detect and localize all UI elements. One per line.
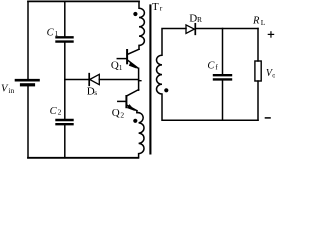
- wire Cf branch upper: [222, 29, 224, 75]
- transformer primary lower winding: [137, 113, 144, 158]
- capacitor Cf: [214, 75, 231, 79]
- wire capacitor branch upper: [64, 2, 66, 36]
- label minus: [265, 117, 271, 119]
- polarity dot secondary: [164, 88, 168, 92]
- label plus: [268, 31, 275, 38]
- svg-text:C: C: [207, 60, 215, 71]
- svg-text:Q: Q: [111, 59, 119, 71]
- wire left rail lower: [27, 86, 29, 157]
- wire capacitor branch middle: [64, 43, 66, 119]
- svg-text:D: D: [189, 12, 197, 24]
- polarity dot primary upper: [133, 12, 137, 16]
- wire top rail: [28, 0, 139, 2]
- transistor Q2: [118, 90, 139, 111]
- wire RL branch upper: [257, 29, 259, 62]
- capacitor C2: [57, 120, 73, 124]
- svg-text:2: 2: [58, 108, 62, 117]
- svg-text:1: 1: [55, 29, 59, 38]
- polarity dot primary lower: [133, 119, 137, 123]
- wire Q1 emitter to Q2 collector: [138, 68, 140, 90]
- wire junction stub: [139, 80, 141, 82]
- wire middle right (Ds anode to Q midpoint): [99, 79, 138, 81]
- transformer primary upper winding: [139, 1, 144, 49]
- svg-text:o: o: [272, 71, 275, 79]
- svg-text:s: s: [94, 88, 97, 97]
- wire capacitor branch lower: [64, 125, 66, 157]
- svg-text:in: in: [8, 86, 14, 95]
- battery Vin: [16, 80, 39, 85]
- Q2 emitter arrowhead: [128, 105, 135, 111]
- svg-text:Q: Q: [112, 107, 120, 119]
- wire left rail upper: [27, 1, 29, 79]
- svg-text:C: C: [50, 106, 58, 117]
- svg-text:R: R: [252, 16, 260, 27]
- transistor Q1: [117, 49, 139, 68]
- wire Cf branch lower: [222, 81, 224, 121]
- wire secondary top right: [196, 28, 258, 30]
- diode Ds: [89, 74, 99, 86]
- resistor RL: [255, 61, 261, 81]
- svg-text:1: 1: [119, 63, 123, 72]
- wire RL branch lower: [257, 81, 259, 120]
- svg-text:f: f: [215, 63, 218, 72]
- wire middle left (cap midpoint to Ds cathode): [65, 79, 89, 81]
- svg-text:C: C: [47, 27, 55, 38]
- capacitor C1: [57, 37, 73, 41]
- wire bottom rail: [28, 157, 138, 159]
- svg-text:L: L: [261, 18, 266, 27]
- svg-text:r: r: [160, 3, 163, 12]
- Q1 emitter arrowhead: [129, 62, 136, 68]
- transformer secondary winding: [157, 29, 259, 121]
- wire Q2 emitter jog to lower winding: [136, 111, 138, 113]
- svg-text:2: 2: [120, 110, 124, 119]
- diode DR: [186, 24, 195, 35]
- svg-text:T: T: [152, 1, 159, 13]
- transformer core line: [149, 5, 151, 153]
- svg-text:R: R: [197, 15, 202, 24]
